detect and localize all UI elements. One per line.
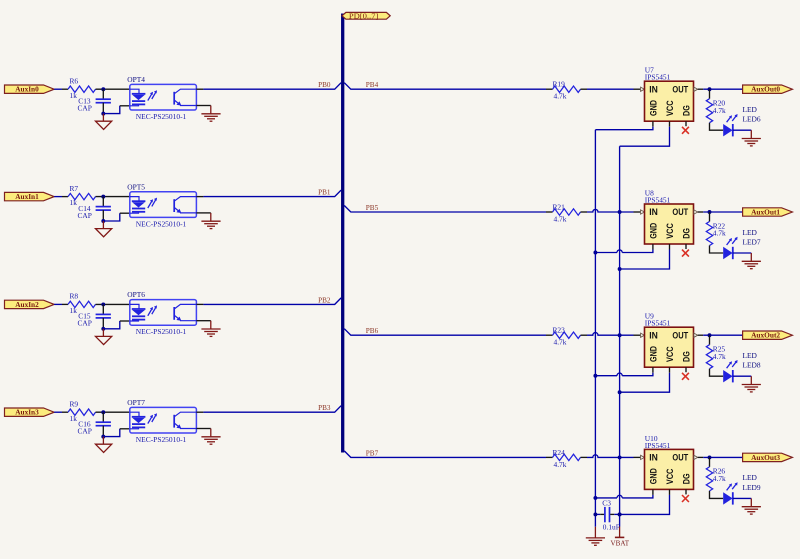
power port VBAT [611,527,630,548]
junction [618,210,622,214]
junction [708,333,712,337]
port PD[0..7] [342,11,390,20]
wire [634,334,641,336]
wire [103,429,120,437]
wire [196,320,210,322]
svg-text:CAP: CAP [78,426,92,435]
wire [344,83,546,90]
wire [120,428,130,430]
input flag AuxIn0 [5,85,55,94]
wire [344,206,546,213]
svg-text:PD[0..7]: PD[0..7] [349,11,379,20]
IC U9 IPS5451 [641,312,698,368]
ground [742,498,761,514]
svg-text:VCC: VCC [665,346,675,362]
no-ERC marker on DG pin [682,489,689,502]
wire GND pin [652,244,654,250]
wire [733,375,752,377]
wire [587,88,634,90]
capacitor C13 value CAP [78,89,111,113]
svg-text:NEC-PS25010-1: NEC-PS25010-1 [136,219,187,228]
junction [618,512,622,516]
svg-text:OPT5: OPT5 [127,182,145,191]
junction [101,87,105,91]
svg-text:LED9: LED9 [743,483,761,492]
resistor R23 value 4.7k [553,326,581,347]
junction [593,512,597,516]
svg-text:OPT6: OPT6 [127,290,145,299]
junction [593,496,597,500]
svg-text:DG: DG [681,351,691,362]
wire [54,88,62,90]
wire [203,406,341,413]
wire [709,89,711,99]
junction [618,333,622,337]
svg-text:0.1uF: 0.1uF [603,523,620,532]
svg-text:AuxIn0: AuxIn0 [15,86,39,94]
svg-text:GND: GND [648,468,658,484]
svg-text:4.7k: 4.7k [554,338,567,347]
wire [120,105,130,107]
svg-text:4.7k: 4.7k [713,229,726,238]
junction [708,210,712,214]
svg-text:R21: R21 [553,202,566,211]
svg-text:R23: R23 [553,326,566,335]
svg-text:LED: LED [743,351,758,360]
ground [742,376,761,392]
junction [618,455,622,459]
IC U10 IPS5451 [641,434,698,490]
svg-text:IPS5451: IPS5451 [645,441,671,450]
wire [710,491,724,499]
wire VCC trunk [619,146,621,526]
svg-text:AuxIn1: AuxIn1 [15,193,39,201]
svg-text:NEC-PS25010-1: NEC-PS25010-1 [136,112,187,121]
svg-text:AuxIn2: AuxIn2 [15,301,39,309]
wire GND pin [652,367,654,373]
wire [96,196,130,198]
svg-text:LED: LED [743,473,758,482]
svg-text:PB2: PB2 [318,296,331,304]
optocoupler OPT5 NEC-PS25010-1 [127,182,196,228]
svg-text:PB6: PB6 [366,327,379,335]
wire [103,213,120,221]
ground [96,329,112,345]
resistor R8 value 1k [68,292,96,315]
wire [709,212,711,222]
junction [101,435,105,439]
resistor R25 value 4.7k [706,345,726,369]
wire with hop over GND trunk [587,455,634,458]
capacitor C14 value CAP [78,197,111,221]
svg-text:PB0: PB0 [318,81,331,89]
wire [634,88,641,90]
capacitor C3 value 0.1uF [595,499,620,532]
svg-text:CAP: CAP [78,319,92,328]
wire [703,456,742,458]
wire VCC pin [669,489,671,495]
wire [62,411,68,413]
resistor R6 value 1k [68,77,96,100]
wire with hop over GND trunk [587,209,634,212]
IC U7 IPS5451 [641,66,698,122]
wire [703,334,742,336]
ground [201,429,220,445]
wire GND pin [652,121,654,127]
wire [581,211,588,213]
wire [703,88,742,90]
svg-text:CAP: CAP [78,103,92,112]
wire [103,321,120,329]
wire VCC pin [669,244,671,250]
junction [101,327,105,331]
resistor R19 value 4.7k [553,80,581,101]
svg-text:R24: R24 [553,448,566,457]
no-ERC marker on DG pin [682,244,689,257]
svg-text:OUT: OUT [672,207,688,217]
svg-text:R7: R7 [70,184,79,193]
wire [733,252,752,254]
wire [546,88,553,90]
svg-text:4.7k: 4.7k [713,352,726,361]
svg-text:GND: GND [648,346,658,362]
resistor R24 value 4.7k [553,448,581,469]
ground [96,437,112,453]
wire GND trunk [594,130,596,527]
wire [709,335,711,345]
junction [618,512,622,516]
svg-text:OUT: OUT [672,330,688,340]
svg-text:IN: IN [649,330,658,340]
svg-text:4.7k: 4.7k [554,214,567,223]
wire [546,334,553,336]
optocoupler OPT4 NEC-PS25010-1 [127,75,196,121]
wire [698,211,704,213]
wire [196,212,210,214]
junction [101,112,105,116]
svg-text:R8: R8 [70,292,79,301]
wire VCC pin [669,121,671,127]
svg-text:LED: LED [743,228,758,237]
junction [618,267,622,271]
resistor R7 value 1k [68,184,96,207]
wire [546,211,553,213]
svg-text:4.7k: 4.7k [554,92,567,101]
svg-text:R9: R9 [70,400,79,409]
wire [196,303,203,305]
ground [742,130,761,146]
junction [101,410,105,414]
wire [62,196,68,198]
wire with hop over GND trunk [587,333,634,336]
LED LED9 [723,473,761,504]
wire [203,190,341,197]
wire [344,451,546,458]
capacitor C16 value CAP [78,412,111,436]
input flag AuxIn2 [5,300,55,309]
wire [595,127,653,130]
wire [620,250,670,270]
svg-text:1k: 1k [70,198,78,207]
output flag AuxOut2 [743,331,793,340]
svg-text:C3: C3 [602,499,611,508]
svg-text:LED6: LED6 [743,115,761,124]
output flag AuxOut1 [743,208,793,217]
wire VCC pin [669,367,671,373]
wire [203,83,341,90]
wire [546,456,553,458]
svg-text:R19: R19 [553,80,566,89]
wire [703,211,742,213]
no-ERC marker on DG pin [682,367,689,380]
svg-text:AuxOut1: AuxOut1 [751,208,780,216]
svg-text:1k: 1k [70,414,78,423]
LED LED8 [723,351,761,382]
input flag AuxIn3 [5,408,55,417]
svg-text:IPS5451: IPS5451 [645,319,671,328]
ground [201,321,220,337]
wire GND pin [652,489,654,495]
svg-text:NEC-PS25010-1: NEC-PS25010-1 [136,327,187,336]
wire [54,196,62,198]
svg-text:OUT: OUT [672,453,688,463]
wire [96,411,130,413]
IC U8 IPS5451 [641,188,698,244]
junction [618,390,622,394]
ground [96,114,112,130]
svg-text:IPS5451: IPS5451 [645,195,671,204]
svg-text:DG: DG [681,228,691,239]
svg-text:IN: IN [649,453,658,463]
svg-text:LED8: LED8 [743,361,761,370]
svg-text:AuxIn3: AuxIn3 [15,409,39,417]
ground [96,221,112,237]
wire [733,497,752,499]
wire [710,246,724,254]
wire [710,369,724,377]
svg-text:AuxOut3: AuxOut3 [751,454,780,462]
svg-text:IN: IN [649,207,658,217]
wire [733,129,752,131]
wire [698,334,704,336]
svg-text:4.7k: 4.7k [713,106,726,115]
svg-text:LED7: LED7 [743,237,761,246]
svg-text:DG: DG [681,105,691,116]
wire [54,303,62,305]
LED LED6 [723,105,761,136]
svg-text:VBAT: VBAT [611,538,630,547]
resistor R20 value 4.7k [706,99,726,123]
wire [581,334,588,336]
wire [196,411,203,413]
wire [620,495,670,515]
svg-text:4.7k: 4.7k [554,460,567,469]
wire [581,88,588,90]
svg-text:IPS5451: IPS5451 [645,73,671,82]
wire [710,123,724,131]
wire [103,106,120,114]
wire [196,88,203,90]
resistor R22 value 4.7k [706,221,726,245]
svg-text:PB4: PB4 [366,81,379,89]
wire [96,303,130,305]
junction [593,251,597,255]
ground [201,106,220,122]
no-ERC marker on DG pin [682,121,689,134]
svg-text:GND: GND [648,223,658,239]
svg-text:NEC-PS25010-1: NEC-PS25010-1 [136,435,187,444]
wire [698,88,704,90]
svg-text:VCC: VCC [665,223,675,239]
svg-text:CAP: CAP [78,211,92,220]
ground [742,253,761,269]
input flag AuxIn1 [5,192,55,201]
resistor R26 value 4.7k [706,467,726,491]
wire with hop over VCC trunk [622,495,653,498]
junction [101,195,105,199]
capacitor C15 value CAP [78,304,111,328]
wire [698,456,704,458]
wire [581,456,588,458]
svg-text:AuxOut2: AuxOut2 [751,332,780,340]
svg-text:LED: LED [743,105,758,114]
resistor R9 value 1k [68,400,96,423]
wire [54,411,62,413]
svg-text:1k: 1k [70,91,78,100]
output flag AuxOut0 [743,85,793,94]
svg-text:DG: DG [681,473,691,484]
wire [709,457,711,467]
LED LED7 [723,228,761,259]
wire [203,298,341,305]
junction [708,87,712,91]
svg-text:R6: R6 [70,77,79,86]
bus PD[0..7] [341,14,344,453]
ground [586,527,605,546]
wire [344,329,546,336]
output flag AuxOut3 [743,453,793,462]
wire [620,127,670,147]
wire [620,373,670,393]
svg-text:PB7: PB7 [366,449,379,457]
wire [120,320,130,322]
svg-text:OPT4: OPT4 [127,75,145,84]
wire [120,212,130,214]
wire [196,196,203,198]
svg-text:4.7k: 4.7k [713,474,726,483]
wire [196,428,210,430]
svg-text:AuxOut0: AuxOut0 [751,86,780,94]
svg-text:1k: 1k [70,306,78,315]
wire [62,303,68,305]
wire [634,211,641,213]
svg-text:OPT7: OPT7 [127,398,145,407]
svg-text:PB3: PB3 [318,404,331,412]
svg-text:OUT: OUT [672,84,688,94]
junction [593,374,597,378]
wire [634,456,641,458]
svg-text:VCC: VCC [665,100,675,116]
wire [62,88,68,90]
svg-text:PB5: PB5 [366,204,379,212]
svg-text:VCC: VCC [665,468,675,484]
ground [201,213,220,229]
junction [101,219,105,223]
svg-text:IN: IN [649,84,658,94]
wire [196,105,210,107]
svg-text:PB1: PB1 [318,189,331,197]
optocoupler OPT7 NEC-PS25010-1 [127,398,196,444]
svg-text:GND: GND [648,100,658,116]
wire with hop over VCC trunk [622,250,653,253]
optocoupler OPT6 NEC-PS25010-1 [127,290,196,336]
junction [101,302,105,306]
wire [96,88,130,90]
junction [708,455,712,459]
wire with hop over VCC trunk [622,373,653,376]
resistor R21 value 4.7k [553,202,581,223]
